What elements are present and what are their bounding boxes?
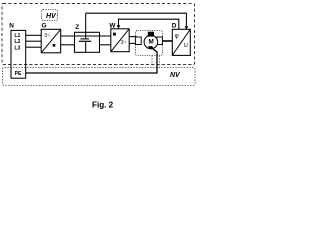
svg-text:Fig. 2: Fig. 2 — [92, 100, 114, 109]
svg-text:φ: φ — [175, 33, 179, 40]
svg-text:W: W — [109, 22, 116, 29]
svg-text:D: D — [172, 23, 177, 30]
svg-text:NV: NV — [170, 72, 181, 79]
svg-text:L2: L2 — [14, 39, 20, 45]
svg-text:Z: Z — [75, 24, 79, 31]
svg-text:L3: L3 — [14, 45, 20, 51]
svg-text:3~: 3~ — [121, 40, 127, 46]
svg-text:U: U — [184, 43, 188, 49]
svg-text:3~: 3~ — [44, 33, 50, 39]
svg-text:L1: L1 — [14, 33, 20, 39]
svg-text:HV: HV — [46, 13, 57, 20]
svg-text:G: G — [42, 23, 47, 30]
svg-text:PE: PE — [15, 71, 22, 77]
svg-text:N: N — [9, 23, 14, 30]
svg-text:M: M — [149, 39, 154, 46]
